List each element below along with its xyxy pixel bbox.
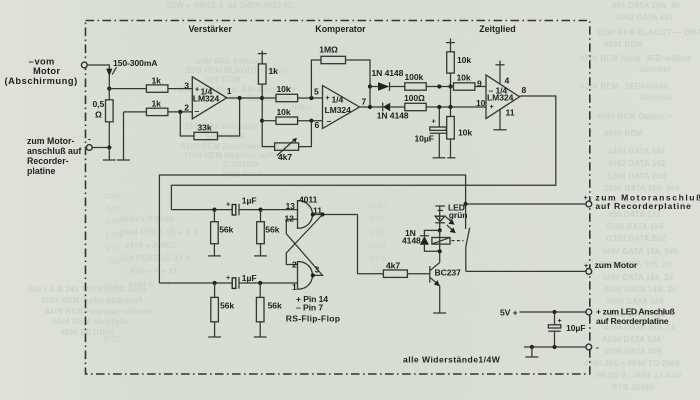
wire feedback down (180, 112, 194, 136)
wire minus rail (524, 346, 586, 348)
diode 1N4148 (top, anode left) (370, 68, 405, 91)
node shunt bottom junction (107, 145, 111, 149)
wire 100R to node (426, 106, 439, 108)
node divider mid (260, 119, 264, 123)
label RS-Flip-Flop (286, 314, 341, 324)
power +V symbol (komperator divider) (258, 51, 267, 64)
wire ground to R 1k pin2 (124, 111, 147, 113)
wire set row to C 1uF (171, 209, 232, 211)
node pin10 row x439 (437, 105, 441, 109)
ground (shunt) (103, 148, 116, 161)
wire 4k7 to base (407, 273, 429, 275)
resistor 10k (to pin 5) (276, 84, 298, 102)
node reset row 56k right junction (258, 281, 262, 285)
resistor 1k (to pin 3) (146, 76, 168, 93)
resistor 10k (to pin 6) (276, 107, 298, 124)
ground (U3 pin 11) (494, 109, 507, 129)
node collector junction (438, 249, 442, 253)
node set row 56k right junction (258, 208, 262, 212)
wire U2 output (360, 106, 383, 108)
terminal zum Motor (584, 260, 638, 274)
capacitor 1uF (set) (226, 196, 256, 216)
node input junction (107, 87, 111, 91)
capacitor 10uF (timing) (415, 107, 447, 158)
capacitor 10uF (5V filter) (548, 312, 585, 347)
wire 33k to output (218, 98, 240, 136)
node 100k row x439 (437, 84, 453, 88)
terminal vom Motor (Abschirmung) (5, 57, 88, 87)
label alle Widerstaende (403, 355, 501, 365)
resistor 56k (set row right) (257, 210, 280, 256)
resistor 4k7 (base) (383, 261, 407, 278)
wire 100k to node (426, 86, 439, 88)
op-amp U3 (zeitglied -1/4 LM324) (476, 75, 527, 119)
diode 1N4148 (bottom, cathode left) (377, 103, 409, 121)
node U2 output junction (368, 105, 372, 109)
power +V symbol (zeitglied divider) (446, 38, 455, 51)
node pin10 row x450 (448, 105, 452, 109)
section label Zeitglied (479, 24, 516, 34)
resistor 10k (lower vertical) (447, 107, 473, 158)
resistor 10k (upper vertical) (447, 52, 472, 73)
wire terminal2 to shunt (92, 147, 109, 149)
node LED cathode junction (438, 228, 442, 232)
resistor 1M feedback (311, 45, 370, 108)
resistor 56k (reset row left) (211, 283, 235, 337)
NAND gate B (4011) (292, 260, 320, 292)
node U1 output junction (238, 96, 242, 100)
capacitor 1uF (reset) (226, 273, 256, 289)
wire U1 output (227, 97, 262, 99)
node divider top (260, 96, 264, 100)
terminal zum Motoranschluss auf Recorderplatine (left) (27, 134, 92, 177)
wire 4k7 up to pin6 (299, 121, 312, 147)
wire divider to 4k7 (262, 146, 275, 148)
resistor 100k (405, 72, 427, 90)
resistor 33k feedback (194, 123, 218, 140)
dash-dot schematic border (86, 21, 590, 375)
wire C to pin 1 (239, 282, 298, 284)
wire 5V rail (520, 311, 587, 313)
resistor 1k (to pin 2) (146, 99, 168, 116)
wire to 10k lower (262, 120, 276, 122)
node 5V cap junction (552, 310, 556, 314)
trimmer 4k7 (275, 138, 299, 162)
node top-branch junction (368, 84, 372, 88)
relay actuation dashed link (452, 240, 464, 242)
ground (emitter) (433, 312, 446, 314)
wire divider rail (261, 84, 263, 147)
wire reset row to C 1uF (159, 282, 232, 284)
wire U3 output 8 to flip-flop set rail (171, 96, 555, 210)
ground (5V minus rail) (525, 347, 538, 357)
terminal zum Motoranschluss auf Recorderplatine (584, 193, 700, 211)
node minus rail cap junction (552, 345, 556, 349)
relay coil (432, 230, 450, 251)
power +V symbol (LED) (435, 206, 445, 216)
wire rail to motor terminal (466, 270, 586, 272)
ground (56k set right) (254, 255, 267, 257)
wire input from motor terminal (87, 65, 109, 89)
cross coupling Q to gate B input 2 (286, 215, 322, 265)
node divider top (pin9 row) (448, 84, 452, 88)
wire 10k to pin5 (298, 97, 323, 99)
resistor 1k pull-up (258, 64, 278, 84)
ground (10uF) (433, 157, 446, 159)
diode 1N4148 (relay clamp) (402, 228, 440, 251)
wire 10k down to node (450, 73, 452, 106)
terminal minus (586, 342, 599, 352)
cross coupling Qbar to gate A input 12 (286, 219, 322, 275)
op-amp U2 (comparator 1/4 LM324) (314, 86, 367, 131)
LED gruen (435, 203, 467, 234)
node pin5 junction (309, 96, 313, 100)
section label Verstaerker (189, 24, 233, 34)
wire C to pin 13 (239, 209, 298, 211)
resistor 0.5 ohm shunt (93, 89, 114, 148)
label pin 14 / pin 7 (296, 294, 328, 313)
node switch top junction (464, 202, 468, 206)
node pin2 junction (178, 110, 182, 114)
wire 10k to pin6 (298, 120, 323, 122)
wire rail to motor terminal on recorder pcb (466, 203, 587, 205)
label 150-300mA (113, 58, 158, 68)
resistor 56k (set row left) (211, 210, 234, 256)
wire R1k to op-amp pin 3 (168, 88, 192, 90)
transistor Q1 BC237 npn (430, 251, 461, 313)
node set row 56k junction (212, 208, 216, 212)
ground (56k reset left) (208, 336, 221, 338)
node reset row 56k junction (213, 281, 217, 285)
terminal zum LED Anschluss auf Reorderplatine (586, 306, 675, 326)
wire motor sense rail to flip-flop reset (159, 175, 465, 283)
resistor 10k (to pin 9) (454, 73, 475, 91)
wire 100R row to pin 10 (439, 106, 486, 108)
node pin6 / 4k7 junction (309, 119, 313, 123)
current direction arrow 150-300mA (106, 67, 116, 76)
ground (lower 10k) (447, 157, 455, 159)
node minus rail ground junction (530, 345, 534, 349)
label 5V+ (500, 308, 518, 318)
resistor 100 ohm (404, 93, 426, 111)
wire to R 1k pin3 (109, 88, 146, 90)
resistor 56k (reset row right) (256, 283, 282, 337)
wire R1k to pin 2 node (168, 111, 192, 113)
ground (56k reset right) (254, 336, 267, 338)
wire gate A output to 4k7 (358, 215, 384, 274)
ground (R 1k pin2) (117, 112, 130, 160)
wire to 10k upper (262, 97, 276, 99)
op-amp U1 (+1/4 LM324 amplifier) (184, 77, 232, 119)
NAND gate A (4011) (285, 195, 323, 229)
wire gate A output (311, 212, 358, 216)
reed switch contact (466, 204, 470, 271)
wire 10k to pin 9 (475, 86, 486, 88)
power +V symbol (U3 pin 4) (496, 61, 505, 85)
section label Komperator (315, 24, 366, 34)
ground (56k set left) (208, 255, 221, 257)
